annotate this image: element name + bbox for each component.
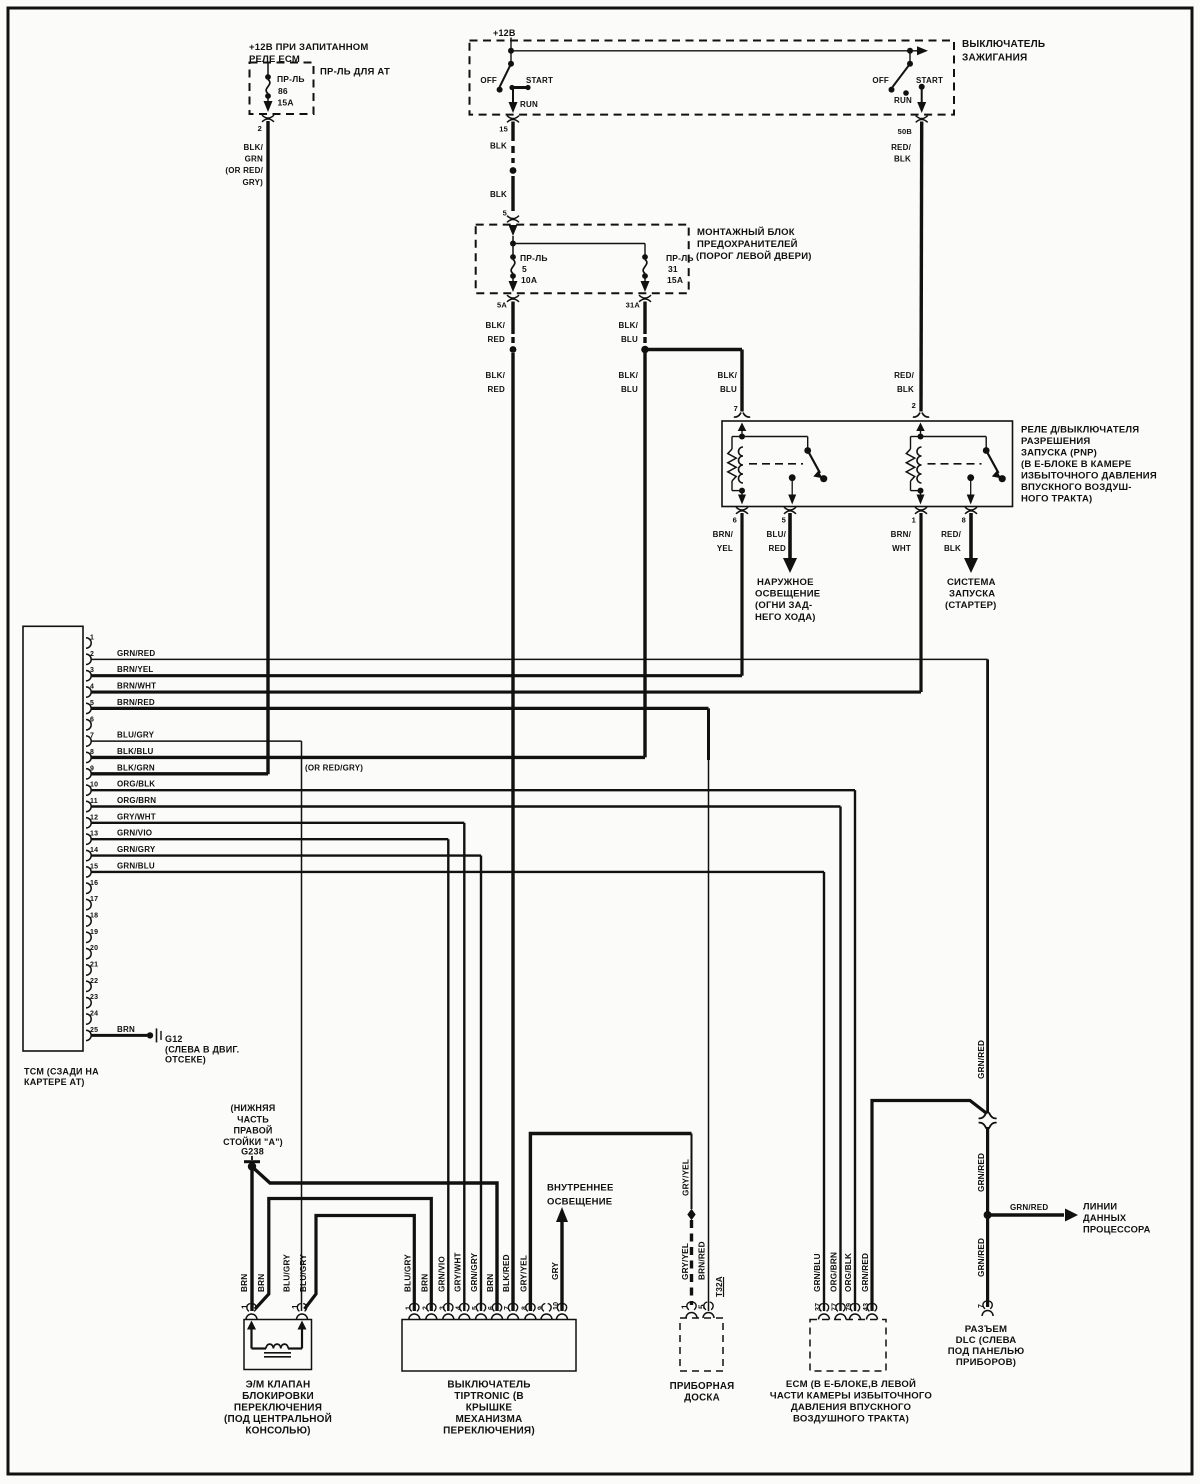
svg-text:BRN/YEL: BRN/YEL [117, 665, 154, 674]
svg-text:6: 6 [733, 516, 737, 525]
svg-text:ДОСКА: ДОСКА [684, 1393, 720, 1404]
svg-text:ДАННЫХ: ДАННЫХ [1083, 1213, 1127, 1223]
svg-text:BLK: BLK [490, 190, 507, 199]
svg-text:GRN/GRY: GRN/GRY [117, 845, 156, 854]
svg-text:ОТСЕКЕ): ОТСЕКЕ) [165, 1055, 206, 1065]
svg-text:5A: 5A [497, 301, 507, 310]
svg-text:GRY): GRY) [242, 178, 263, 187]
svg-text:BRN/RED: BRN/RED [117, 698, 155, 707]
svg-text:ИЗБЫТОЧНОГО ДАВЛЕНИЯ: ИЗБЫТОЧНОГО ДАВЛЕНИЯ [1021, 471, 1157, 482]
svg-text:G12: G12 [165, 1034, 183, 1044]
svg-text:TCM (СЗАДИ НА: TCM (СЗАДИ НА [24, 1067, 99, 1077]
svg-text:BRN: BRN [257, 1274, 266, 1292]
svg-text:1: 1 [241, 1304, 250, 1309]
svg-text:ДАВЛЕНИЯ ВПУСКНОГО: ДАВЛЕНИЯ ВПУСКНОГО [791, 1402, 912, 1413]
svg-text:4: 4 [455, 1306, 462, 1310]
svg-text:RED: RED [488, 335, 506, 344]
svg-text:ВЫКЛЮЧАТЕЛЬ: ВЫКЛЮЧАТЕЛЬ [447, 1380, 530, 1391]
svg-text:RUN: RUN [894, 96, 912, 105]
svg-text:НОГО ТРАКТА): НОГО ТРАКТА) [1021, 494, 1092, 505]
svg-text:ECM (В Е-БЛОКЕ,В ЛЕВОЙ: ECM (В Е-БЛОКЕ,В ЛЕВОЙ [786, 1378, 916, 1390]
svg-text:+12В ПРИ ЗАПИТАННОМ: +12В ПРИ ЗАПИТАННОМ [249, 42, 368, 53]
svg-text:ПЕРЕКЛЮЧЕНИЯ: ПЕРЕКЛЮЧЕНИЯ [234, 1403, 322, 1414]
svg-text:GRN/BLU: GRN/BLU [117, 861, 155, 870]
svg-text:ПРЕДОХРАНИТЕЛЕЙ: ПРЕДОХРАНИТЕЛЕЙ [697, 238, 798, 250]
svg-text:6: 6 [488, 1306, 495, 1310]
svg-text:GRN/RED: GRN/RED [1010, 1203, 1048, 1212]
svg-text:START: START [916, 76, 943, 85]
svg-text:14: 14 [90, 847, 98, 854]
svg-text:ОСВЕЩЕНИЕ: ОСВЕЩЕНИЕ [755, 589, 820, 600]
svg-text:BLK: BLK [894, 155, 911, 164]
svg-text:ЗАЖИГАНИЯ: ЗАЖИГАНИЯ [962, 53, 1027, 64]
svg-text:ПР-ЛЬ: ПР-ЛЬ [666, 253, 694, 263]
svg-text:50B: 50B [898, 127, 913, 136]
svg-text:ЛИНИИ: ЛИНИИ [1083, 1202, 1117, 1212]
svg-text:RED: RED [488, 385, 506, 394]
svg-text:TIPTRONIC (В: TIPTRONIC (В [454, 1391, 524, 1402]
svg-text:BRN/RED: BRN/RED [698, 1241, 707, 1280]
svg-text:РАЗРЕШЕНИЯ: РАЗРЕШЕНИЯ [1021, 436, 1090, 447]
svg-text:BRN/: BRN/ [713, 530, 734, 539]
svg-text:43: 43 [863, 1303, 870, 1311]
svg-text:OFF: OFF [480, 76, 497, 85]
svg-text:5: 5 [522, 264, 527, 274]
svg-text:ORG/BRN: ORG/BRN [117, 796, 156, 805]
svg-text:15A: 15A [667, 275, 683, 285]
svg-text:WHT: WHT [892, 544, 911, 553]
svg-text:GRY: GRY [551, 1262, 560, 1280]
svg-text:16: 16 [90, 880, 98, 887]
svg-text:BLU/GRY: BLU/GRY [403, 1254, 412, 1292]
svg-text:ПЕРЕКЛЮЧЕНИЯ): ПЕРЕКЛЮЧЕНИЯ) [443, 1426, 535, 1437]
svg-text:9: 9 [538, 1306, 545, 1310]
svg-text:РЕЛЕ Д/ВЫКЛЮЧАТЕЛЯ: РЕЛЕ Д/ВЫКЛЮЧАТЕЛЯ [1021, 425, 1139, 436]
svg-text:9: 9 [90, 765, 94, 772]
svg-text:YEL: YEL [717, 544, 733, 553]
svg-text:BLK/: BLK/ [486, 321, 506, 330]
svg-text:BLU: BLU [720, 385, 737, 394]
svg-text:(ОГНИ ЗАД-: (ОГНИ ЗАД- [755, 600, 812, 611]
svg-text:МОНТАЖНЫЙ БЛОК: МОНТАЖНЫЙ БЛОК [697, 226, 795, 238]
svg-text:1: 1 [90, 635, 94, 642]
svg-text:ВОЗДУШНОГО ТРАКТА): ВОЗДУШНОГО ТРАКТА) [793, 1414, 909, 1425]
svg-text:СТОЙКИ "А"): СТОЙКИ "А") [223, 1136, 283, 1147]
svg-text:ПРАВОЙ: ПРАВОЙ [233, 1125, 272, 1136]
svg-text:RED/: RED/ [894, 371, 914, 380]
svg-text:17: 17 [90, 896, 98, 903]
svg-text:2: 2 [422, 1306, 429, 1310]
svg-text:GRN: GRN [245, 155, 263, 164]
svg-text:3: 3 [90, 667, 94, 674]
svg-text:ПРОЦЕССОРА: ПРОЦЕССОРА [1083, 1225, 1151, 1235]
svg-text:79: 79 [846, 1303, 853, 1311]
svg-text:10A: 10A [521, 275, 537, 285]
svg-text:(ПОРОГ ЛЕВОЙ ДВЕРИ): (ПОРОГ ЛЕВОЙ ДВЕРИ) [696, 250, 812, 262]
svg-text:GRY/WHT: GRY/WHT [117, 812, 156, 821]
svg-text:ЧАСТЬ: ЧАСТЬ [237, 1114, 269, 1124]
svg-text:5: 5 [90, 700, 94, 707]
svg-text:22: 22 [90, 978, 98, 985]
svg-text:2: 2 [912, 401, 916, 410]
svg-text:GRN/VIO: GRN/VIO [437, 1256, 446, 1292]
svg-text:BRN: BRN [486, 1274, 495, 1292]
svg-text:BLK: BLK [897, 385, 914, 394]
svg-text:ЧАСТИ КАМЕРЫ ИЗБЫТОЧНОГО: ЧАСТИ КАМЕРЫ ИЗБЫТОЧНОГО [770, 1391, 932, 1402]
svg-text:1: 1 [405, 1306, 412, 1310]
svg-text:ПР-ЛЬ: ПР-ЛЬ [277, 74, 305, 84]
svg-text:BLK/: BLK/ [619, 321, 639, 330]
svg-text:31A: 31A [626, 301, 641, 310]
svg-text:BRN: BRN [420, 1274, 429, 1292]
svg-text:18: 18 [90, 912, 98, 919]
svg-text:BRN: BRN [240, 1274, 249, 1292]
svg-text:РАЗЪЕМ: РАЗЪЕМ [965, 1324, 1007, 1335]
svg-text:13: 13 [90, 831, 98, 838]
svg-text:BLK/RED: BLK/RED [502, 1254, 511, 1292]
svg-text:(В Е-БЛОКЕ В КАМЕРЕ: (В Е-БЛОКЕ В КАМЕРЕ [1021, 459, 1131, 470]
svg-text:BLK/: BLK/ [244, 143, 264, 152]
svg-text:7: 7 [978, 1304, 985, 1308]
svg-text:5: 5 [782, 516, 786, 525]
svg-text:BLK/: BLK/ [718, 371, 738, 380]
svg-text:GRN/RED: GRN/RED [977, 1238, 986, 1277]
svg-text:(СЛЕВА В ДВИГ.: (СЛЕВА В ДВИГ. [165, 1045, 239, 1055]
svg-text:BRN/WHT: BRN/WHT [117, 682, 156, 691]
svg-text:GRN/RED: GRN/RED [977, 1153, 986, 1192]
svg-text:GRY/YEL: GRY/YEL [682, 1159, 691, 1196]
svg-text:1: 1 [291, 1304, 300, 1309]
svg-text:GRY/WHT: GRY/WHT [453, 1252, 462, 1292]
svg-text:RUN: RUN [520, 100, 538, 109]
svg-text:ВЫКЛЮЧАТЕЛЬ: ВЫКЛЮЧАТЕЛЬ [962, 39, 1045, 50]
svg-text:ВПУСКНОГО ВОЗДУШ-: ВПУСКНОГО ВОЗДУШ- [1021, 482, 1132, 493]
svg-text:19: 19 [90, 929, 98, 936]
svg-text:OFF: OFF [872, 76, 889, 85]
svg-text:ORG/BLK: ORG/BLK [117, 780, 155, 789]
svg-text:GRN/BLU: GRN/BLU [813, 1253, 822, 1292]
svg-text:21: 21 [90, 962, 98, 969]
svg-text:3: 3 [439, 1306, 446, 1310]
svg-text:15: 15 [499, 125, 508, 134]
svg-text:БЛОКИРОВКИ: БЛОКИРОВКИ [242, 1391, 314, 1402]
svg-text:ПР-ЛЬ ДЛЯ АТ: ПР-ЛЬ ДЛЯ АТ [320, 67, 390, 78]
svg-text:T32A: T32A [715, 1276, 724, 1297]
svg-text:BLU/GRY: BLU/GRY [117, 731, 155, 740]
svg-text:(OR RED/: (OR RED/ [225, 166, 263, 175]
svg-text:ЗАПУСКА: ЗАПУСКА [949, 589, 995, 600]
svg-text:24: 24 [90, 1011, 98, 1018]
svg-text:ПРИБОРНАЯ: ПРИБОРНАЯ [670, 1381, 735, 1392]
svg-text:15: 15 [90, 863, 98, 870]
svg-text:(СТАРТЕР): (СТАРТЕР) [945, 600, 997, 611]
svg-text:МЕХАНИЗМА: МЕХАНИЗМА [456, 1414, 523, 1425]
svg-text:BLK/BLU: BLK/BLU [117, 747, 154, 756]
svg-text:НЕГО ХОДА): НЕГО ХОДА) [755, 612, 816, 623]
svg-text:ОСВЕЩЕНИЕ: ОСВЕЩЕНИЕ [547, 1197, 612, 1208]
svg-text:GRY/YEL: GRY/YEL [681, 1243, 690, 1280]
svg-text:8: 8 [90, 749, 94, 756]
svg-text:7: 7 [90, 733, 94, 740]
svg-text:RED/: RED/ [891, 143, 911, 152]
svg-text:BLU/GRY: BLU/GRY [283, 1254, 292, 1292]
svg-text:КРЫШКЕ: КРЫШКЕ [466, 1403, 513, 1414]
svg-text:(ПОД ЦЕНТРАЛЬНОЙ: (ПОД ЦЕНТРАЛЬНОЙ [224, 1412, 332, 1425]
svg-text:37: 37 [815, 1303, 822, 1311]
svg-text:BLU/: BLU/ [767, 530, 787, 539]
svg-text:ПР-ЛЬ: ПР-ЛЬ [520, 253, 548, 263]
svg-text:GRN/RED: GRN/RED [977, 1040, 986, 1079]
svg-text:(OR RED/GRY): (OR RED/GRY) [305, 763, 363, 772]
svg-text:(НИЖНЯЯ: (НИЖНЯЯ [231, 1103, 276, 1113]
svg-text:8: 8 [962, 516, 966, 525]
svg-text:Э/М КЛАПАН: Э/М КЛАПАН [246, 1380, 311, 1391]
svg-text:BLK/: BLK/ [486, 371, 506, 380]
svg-text:BLU: BLU [621, 385, 638, 394]
svg-text:20: 20 [90, 945, 98, 952]
svg-text:BLK: BLK [490, 142, 507, 151]
svg-text:ORG/BRN: ORG/BRN [830, 1252, 839, 1292]
svg-text:G238: G238 [241, 1147, 264, 1157]
svg-text:RED: RED [769, 544, 787, 553]
svg-text:START: START [526, 76, 553, 85]
svg-text:2: 2 [90, 651, 94, 658]
svg-text:10: 10 [553, 1302, 560, 1310]
svg-text:GRN/VIO: GRN/VIO [117, 829, 152, 838]
svg-text:8: 8 [521, 1306, 528, 1310]
svg-text:15A: 15A [278, 98, 294, 108]
svg-text:7: 7 [504, 1306, 511, 1310]
svg-text:5: 5 [503, 209, 507, 218]
svg-text:6: 6 [90, 716, 94, 723]
svg-text:BLK/: BLK/ [619, 371, 639, 380]
svg-text:BLU/GRY: BLU/GRY [299, 1254, 308, 1292]
svg-text:ПРИБОРОВ): ПРИБОРОВ) [956, 1357, 1016, 1368]
svg-text:10: 10 [90, 782, 98, 789]
svg-text:СИСТЕМА: СИСТЕМА [947, 577, 996, 588]
svg-text:5: 5 [472, 1306, 479, 1310]
svg-text:31: 31 [668, 264, 678, 274]
svg-text:BRN: BRN [117, 1025, 135, 1034]
svg-text:BLK: BLK [944, 544, 961, 553]
svg-text:23: 23 [90, 994, 98, 1001]
svg-text:GRN/GRY: GRN/GRY [470, 1252, 479, 1292]
svg-text:12: 12 [90, 814, 98, 821]
svg-text:ПОД ПАНЕЛЬЮ: ПОД ПАНЕЛЬЮ [948, 1346, 1025, 1357]
svg-text:ORG/BLK: ORG/BLK [844, 1253, 853, 1292]
svg-text:ЗАПУСКА (PNP): ЗАПУСКА (PNP) [1021, 448, 1097, 459]
svg-text:2: 2 [258, 124, 262, 133]
svg-text:7: 7 [734, 404, 738, 413]
svg-text:1: 1 [912, 516, 916, 525]
svg-text:86: 86 [278, 86, 288, 96]
svg-text:77: 77 [832, 1303, 839, 1311]
svg-text:НАРУЖНОЕ: НАРУЖНОЕ [757, 577, 814, 588]
svg-text:+12B: +12B [493, 28, 516, 38]
svg-text:BRN/: BRN/ [891, 530, 912, 539]
svg-text:GRN/RED: GRN/RED [117, 649, 155, 658]
svg-text:BLK/GRN: BLK/GRN [117, 763, 155, 772]
svg-text:1: 1 [681, 1304, 690, 1309]
svg-text:GRY/YEL: GRY/YEL [519, 1255, 528, 1292]
svg-text:4: 4 [90, 684, 94, 691]
svg-text:BLU: BLU [621, 335, 638, 344]
svg-text:ВНУТРЕННЕЕ: ВНУТРЕННЕЕ [547, 1183, 614, 1194]
svg-text:11: 11 [90, 798, 98, 805]
svg-text:5: 5 [698, 1304, 707, 1309]
svg-text:DLC (СЛЕВА: DLC (СЛЕВА [956, 1335, 1017, 1346]
svg-text:КАРТЕРЕ АТ): КАРТЕРЕ АТ) [24, 1077, 85, 1087]
svg-text:КОНСОЛЬЮ): КОНСОЛЬЮ) [245, 1426, 310, 1437]
svg-text:25: 25 [90, 1027, 98, 1034]
svg-text:RED/: RED/ [941, 530, 961, 539]
svg-text:GRN/RED: GRN/RED [861, 1253, 870, 1292]
